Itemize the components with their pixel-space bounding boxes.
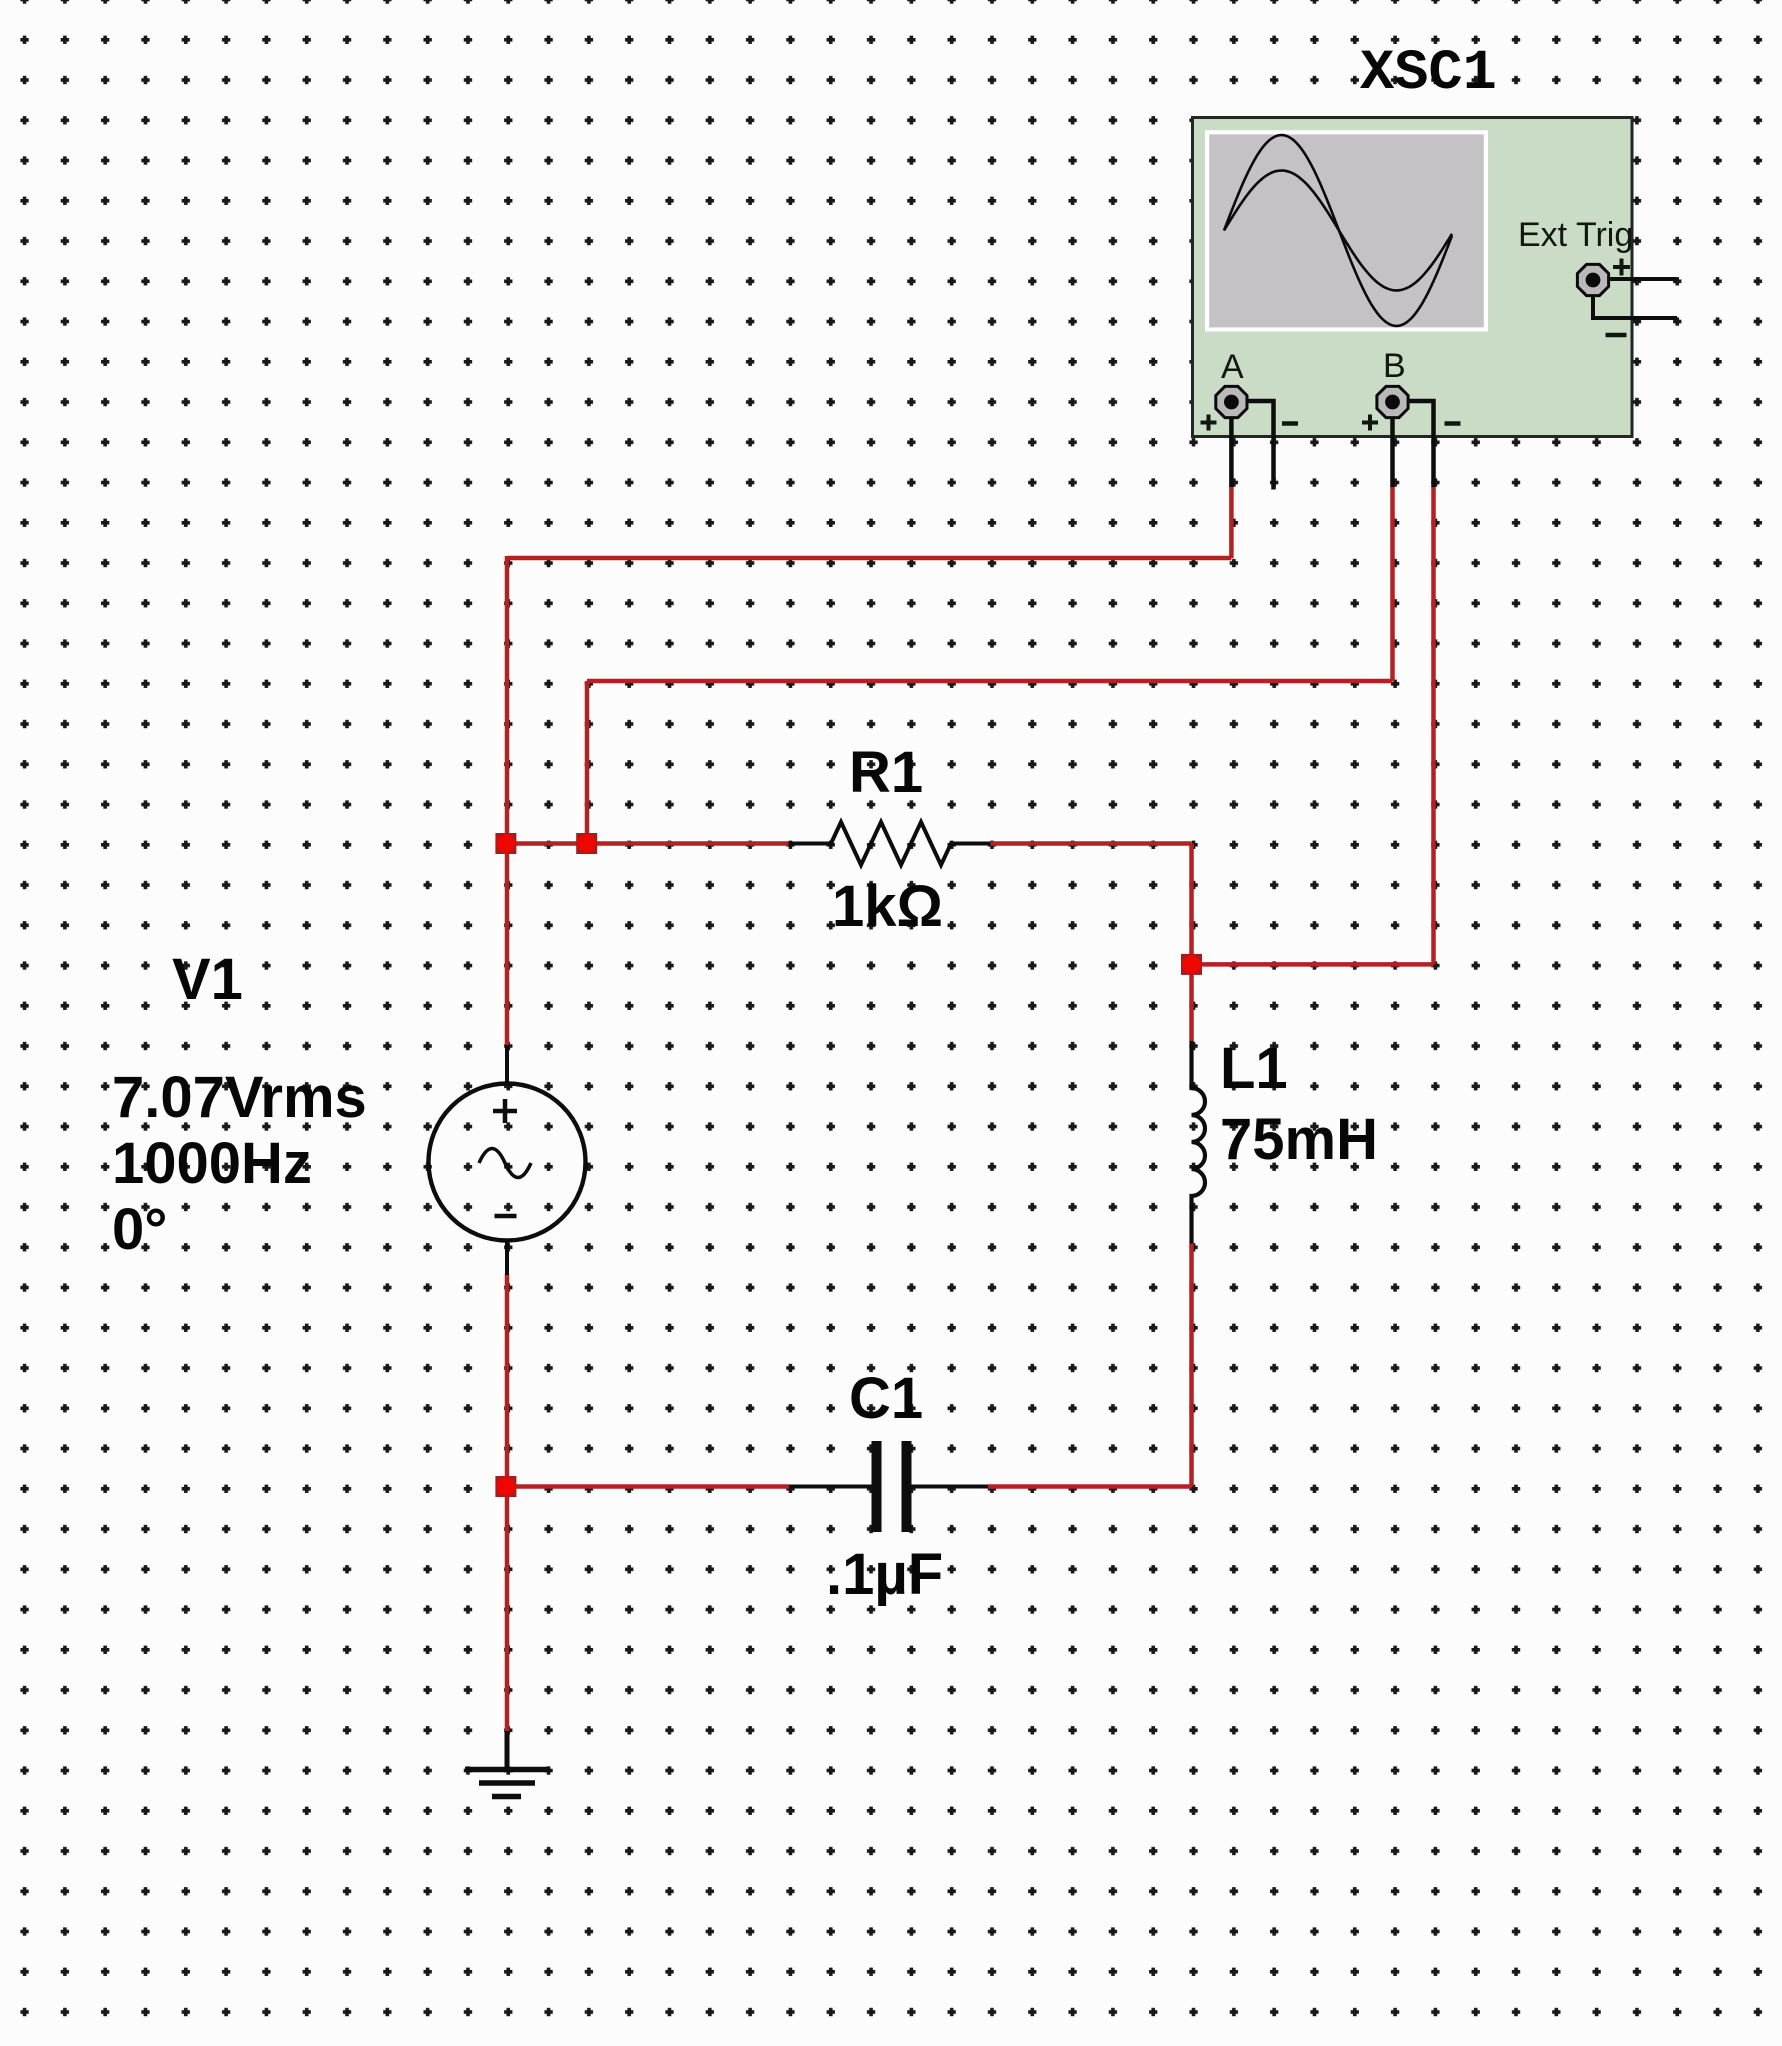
svg-text:0°: 0° (112, 1197, 167, 1262)
wire top horizontal A+ run (507, 556, 1231, 561)
B + mark (1362, 415, 1378, 431)
svg-text:C1: C1 (849, 1366, 923, 1431)
wire C1 right red segment (988, 1484, 1192, 1489)
scope pin wire B- pigtail (1393, 401, 1434, 487)
wire L1 column top (1189, 844, 1194, 1042)
terminal A (1216, 386, 1247, 417)
Ext Trig - mark (1606, 333, 1627, 338)
svg-text:XSC1: XSC1 (1360, 42, 1497, 106)
wire B- vertical (1431, 486, 1436, 964)
terminal Ext Trig (1577, 264, 1608, 295)
scope sine trace outer (1224, 135, 1452, 326)
junction node R1-in (495, 833, 516, 854)
resistor R1 (789, 822, 991, 865)
wire B+ vertical drop to scope (1390, 486, 1395, 681)
wire V1 bottom to ground (505, 1274, 510, 1731)
svg-text:R1: R1 (849, 740, 923, 805)
wire L1 bottom to C1 right corner (1189, 1244, 1194, 1487)
AC source V1 (429, 1045, 586, 1275)
wire left vertical from top run down to V1 (505, 556, 510, 1047)
scope pin wire A+ (1229, 402, 1234, 487)
scope pin wire Ext Trig + (1593, 277, 1677, 281)
scope screen (1205, 130, 1488, 331)
scope pin wire B+ (1390, 402, 1395, 487)
svg-text:7.07Vrms: 7.07Vrms (112, 1065, 367, 1130)
svg-text:A: A (1221, 348, 1244, 386)
wire A+ vertical drop to scope (1229, 486, 1234, 558)
terminal B (1377, 386, 1408, 417)
capacitor C1 (789, 1441, 988, 1532)
scope pin wire Ext Trig - (1593, 280, 1677, 318)
svg-text:V1: V1 (172, 947, 243, 1012)
svg-text:L1: L1 (1220, 1036, 1288, 1101)
ground (465, 1731, 550, 1797)
wire net V1+ top: from source top to scope A and R1 input (507, 486, 1434, 1731)
svg-text:.1µF: .1µF (826, 1542, 943, 1607)
junction node B+ tap (576, 833, 597, 854)
oscilloscope XSC1 body (1193, 118, 1633, 437)
A - mark (1282, 421, 1298, 426)
wire R1 left red segment (507, 841, 789, 846)
inductor L1 (1192, 1041, 1206, 1244)
wire vertical x=587 to R1 node (585, 681, 590, 844)
Ext Trig + mark (1613, 259, 1630, 276)
A + mark (1201, 415, 1217, 431)
B - mark (1445, 421, 1461, 426)
scope sine trace inner (1224, 171, 1452, 291)
wire second horizontal B+ run (587, 679, 1393, 684)
scope pin wire A- pigtail (1231, 401, 1273, 490)
junction node B- tap (1181, 954, 1202, 975)
svg-text:1000Hz: 1000Hz (112, 1131, 312, 1196)
wire C1 left red segment (507, 1484, 789, 1489)
svg-text:Ext Trig: Ext Trig (1518, 216, 1633, 254)
wire B- horizontal run at node (1192, 962, 1434, 967)
wire R1 right red segment to L1 column (991, 841, 1192, 846)
svg-text:B: B (1383, 347, 1406, 385)
junction node C1-in (495, 1476, 516, 1497)
svg-text:1kΩ: 1kΩ (832, 874, 943, 939)
svg-text:75mH: 75mH (1220, 1107, 1378, 1172)
